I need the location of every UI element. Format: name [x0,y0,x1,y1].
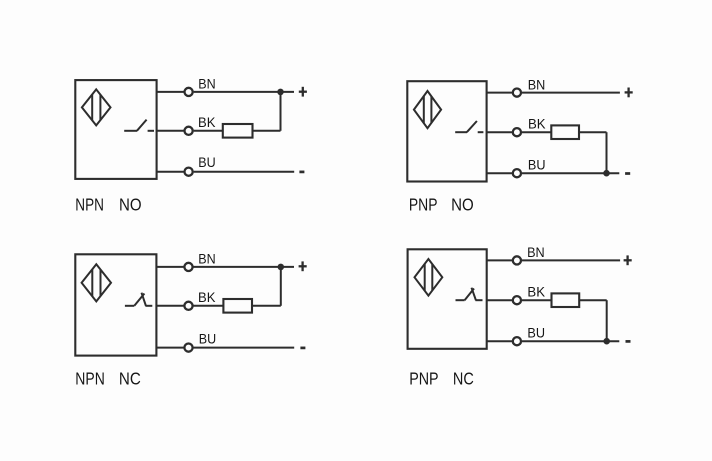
wire (resistor to branch corner) [579,131,607,133]
load resistor RL1 [223,124,253,138]
- terminal (PNP NO) [625,172,630,175]
wire BU (U2 box to pin) [487,172,512,174]
svg-text:NO: NO [119,194,142,214]
wire (branch up to BN junction, NPN NC) [280,267,282,306]
title PNP NC [409,368,474,388]
svg-text:BU: BU [199,332,216,347]
wire BN (U3 box to pin) [156,266,183,268]
+ terminal (PNP NC) [624,255,632,265]
svg-text:BK: BK [527,285,545,300]
wire BK (pin to resistor) [194,305,224,307]
NO switch contact (U1 output) [124,120,154,131]
NO switch contact (U2 output) [455,121,483,132]
svg-text:NPN: NPN [75,368,105,388]
svg-text:BN: BN [198,251,215,266]
proximity sensor diamond symbol (U3) [82,264,111,301]
NC switch contact (U3 output) [125,293,152,306]
wire BU (U4 box to pin) [487,340,512,342]
wire BN (U4 box to pin) [487,259,512,261]
pin circle BN (U4) [513,256,521,264]
wire (resistor to junction, NPN NC) [252,305,281,307]
junction node (BU / load branch, PNP NC) [603,338,610,345]
svg-text:BN: BN [198,76,215,91]
- terminal (PNP NC) [626,340,631,343]
svg-text:NO: NO [451,194,474,214]
title PNP NO [409,194,474,214]
pin circle BU (U3) [184,344,192,352]
load resistor RL3 [223,299,252,313]
wire BK (U4 box to pin) [487,299,512,301]
wire BK (U1 box to pin) [157,130,184,132]
+ terminal (PNP NO) [625,88,633,98]
proximity sensor diamond symbol (U1) [82,89,111,125]
title NPN NO [75,194,141,214]
svg-text:BK: BK [528,117,546,132]
svg-text:BK: BK [198,115,216,130]
svg-text:PNP: PNP [409,368,438,388]
wire BU (pin to - terminal) [194,171,295,173]
svg-text:BU: BU [198,155,215,170]
junction node (BU / load branch) [603,170,610,177]
wire (resistor to junction) [253,130,281,132]
svg-text:BN: BN [527,245,545,260]
wire BK (pin to resistor) [522,131,551,133]
wire BU (pin to - terminal) [522,340,619,342]
wire BU (U3 box to pin) [156,347,183,349]
wire (resistor to branch corner, PNP NC) [579,299,607,301]
svg-text:BU: BU [528,158,546,173]
svg-text:PNP: PNP [409,194,438,214]
pin circle BK (U2) [513,128,521,136]
- terminal (NPN NC) [300,347,305,350]
wire BU (pin to - terminal) [522,172,619,174]
svg-text:BK: BK [198,290,216,305]
wire BN (pin to + terminal) [522,259,620,261]
pin circle BU (U2) [513,169,521,177]
- terminal (NPN NO) [299,171,304,174]
junction node (BN / load branch, NPN NC) [278,264,285,271]
svg-text:NC: NC [119,368,141,388]
svg-text:NC: NC [453,368,474,388]
load resistor RL4 [552,293,580,307]
+ terminal (NPN NC) [299,261,307,271]
wire BN (pin to + terminal) [194,266,295,268]
pin circle BN (U1) [185,88,193,96]
svg-text:BU: BU [527,326,545,341]
wire BK (U2 box to pin) [487,131,512,133]
load resistor RL2 [551,125,579,139]
pin circle BK (U1) [185,127,193,135]
sensor box U3 (NPN NC) [75,254,156,355]
wire BN (U1 box to pin) [157,91,184,93]
+ terminal (NPN NO) [299,87,307,97]
title NPN NC [75,368,141,388]
svg-text:BN: BN [528,77,546,92]
NC switch contact (U4 output) [456,288,483,301]
wire BN (pin to + terminal) [194,91,294,93]
wire BK (pin to resistor) [194,130,223,132]
wire (branch up to BN junction) [280,92,282,131]
pin circle BK (U4) [513,296,521,304]
pin circle BN (U2) [513,89,521,97]
svg-text:NPN: NPN [75,194,104,214]
sensor box U1 (NPN NO) [75,80,156,179]
wire BK (pin to resistor) [522,299,552,301]
junction node (BN / load branch) [277,89,284,96]
wire BU (pin to - terminal) [194,347,295,349]
proximity sensor diamond symbol (U2) [414,91,441,128]
wire BK (U3 box to pin) [156,305,183,307]
wire (branch down to BU junction, PNP NC) [606,300,608,341]
sensor box U2 (PNP NO) [407,81,486,181]
proximity sensor diamond symbol (U4) [415,259,443,296]
wire BN (U2 box to pin) [487,92,512,94]
pin circle BN (U3) [184,263,192,271]
pin circle BU (U1) [185,168,193,176]
sensor box U4 (PNP NC) [408,249,487,348]
pin circle BK (U3) [184,302,192,310]
wire BU (U1 box to pin) [157,171,184,173]
wire BN (pin to + terminal) [522,92,620,94]
pin circle BU (U4) [513,337,521,345]
wire (branch down to BU junction) [606,132,608,173]
